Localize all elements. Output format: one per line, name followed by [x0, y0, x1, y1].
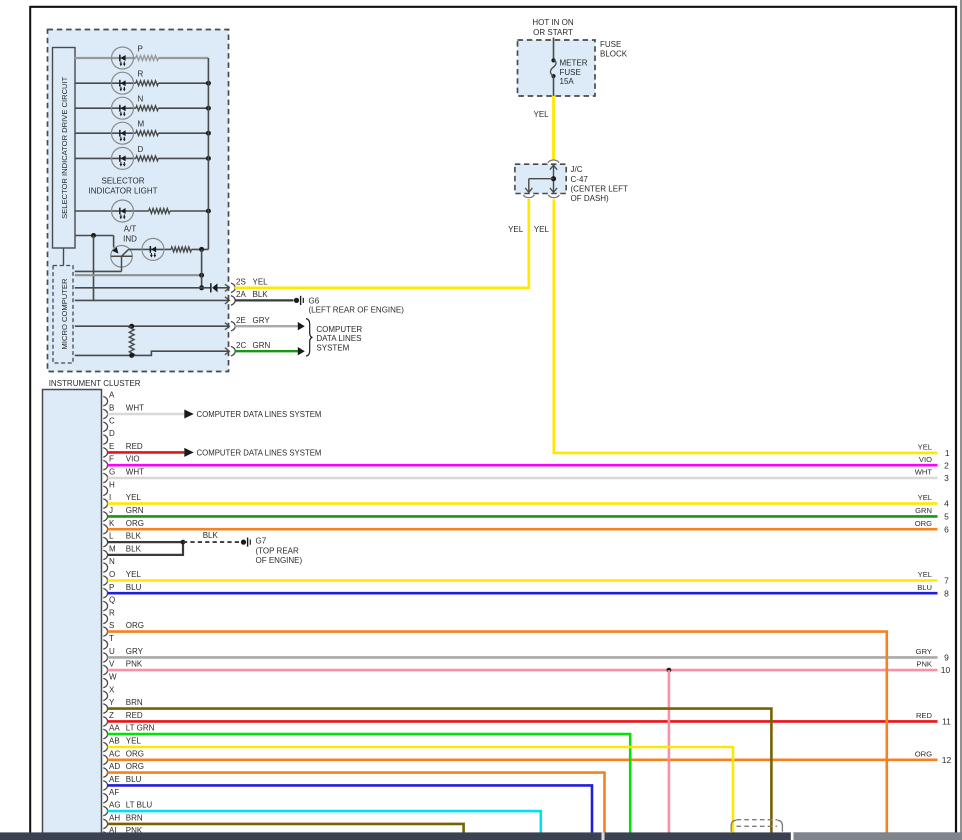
- wire row P: [75, 57, 136, 59]
- wire hot feed into fuse: [553, 38, 555, 60]
- svg-text:U: U: [109, 647, 115, 656]
- svg-text:AC: AC: [109, 749, 120, 758]
- JC chevron up: [550, 165, 557, 170]
- svg-text:B: B: [109, 404, 114, 413]
- svg-text:YEL: YEL: [918, 493, 932, 502]
- JC chevron down left: [525, 188, 532, 193]
- svg-text:VIO: VIO: [126, 455, 140, 464]
- svg-text:S: S: [109, 621, 114, 630]
- wire fuse to box bottom: [553, 76, 555, 96]
- wire 2A vertical branch: [93, 236, 95, 301]
- svg-text:V: V: [109, 660, 115, 669]
- selector indicator drive circuit box U1: [53, 48, 76, 249]
- wire pin AE BLU down: [108, 785, 593, 833]
- transistor Q1 A/T IND driver: [111, 245, 133, 267]
- svg-text:D: D: [138, 145, 144, 154]
- fuse block dashed box: [518, 40, 596, 96]
- wire pin I YEL to right edge: [108, 502, 938, 505]
- LED M selector indicator: [112, 122, 134, 144]
- wire pin AG LT BLU down: [108, 811, 541, 833]
- instrument cluster internal circuit dashed box: [48, 30, 229, 372]
- wire pin O YEL to right edge: [108, 579, 938, 582]
- connector cap into JC: [548, 160, 559, 163]
- svg-text:H: H: [109, 480, 115, 489]
- wire YEL JC right branch down: [554, 199, 938, 453]
- svg-text:11: 11: [942, 717, 951, 727]
- connector pin 2C: [225, 348, 230, 355]
- svg-text:M: M: [109, 544, 116, 553]
- svg-text:RED: RED: [126, 442, 143, 451]
- LED P selector indicator: [112, 47, 134, 69]
- svg-text:G6: G6: [309, 296, 320, 305]
- svg-text:YEL: YEL: [534, 225, 550, 234]
- JC exit cup left: [523, 195, 534, 198]
- JC internal wire vertical: [553, 165, 555, 193]
- resistor R2 micro computer: [129, 326, 134, 355]
- svg-text:YEL: YEL: [508, 225, 524, 234]
- svg-text:LT BLU: LT BLU: [126, 801, 153, 810]
- svg-text:ORG: ORG: [126, 621, 144, 630]
- svg-text:AA: AA: [109, 724, 120, 733]
- arrow pin B data lines: [184, 410, 194, 419]
- svg-text:BLK: BLK: [203, 531, 219, 540]
- svg-text:AF: AF: [109, 788, 119, 797]
- svg-text:Q: Q: [109, 596, 115, 605]
- svg-text:K: K: [109, 519, 115, 528]
- svg-text:J/C: J/C: [571, 165, 583, 174]
- svg-text:P: P: [138, 45, 143, 54]
- svg-text:G7: G7: [256, 537, 267, 546]
- svg-text:ORG: ORG: [126, 519, 144, 528]
- svg-text:P: P: [109, 583, 114, 592]
- svg-text:BLU: BLU: [917, 583, 932, 592]
- junction 2C resistor bottom: [129, 353, 134, 358]
- wire 2C from micro computer: [75, 354, 132, 356]
- resistor A/T IND: [171, 247, 191, 252]
- wire 2S to connector: [218, 287, 229, 289]
- wire PNK vertical down: [668, 670, 671, 833]
- stub between drive circuit and micro computer: [63, 248, 65, 266]
- wire pin Z RED to right edge: [108, 720, 938, 723]
- wire pin E RED: [108, 451, 185, 454]
- svg-text:OF DASH): OF DASH): [571, 194, 610, 203]
- wire 2A from micro computer: [75, 299, 229, 301]
- svg-text:PNK: PNK: [916, 660, 932, 669]
- svg-text:5: 5: [944, 512, 949, 522]
- resistor row R: [136, 81, 159, 86]
- wire YEL fuse to JC: [552, 96, 555, 160]
- JC exit cup right: [548, 195, 559, 198]
- wire 2E from micro computer: [75, 325, 229, 327]
- diode D1 on 2S line: [210, 283, 212, 292]
- svg-text:3: 3: [944, 473, 949, 483]
- svg-text:12: 12: [942, 755, 952, 765]
- JC chevron down right: [550, 188, 557, 193]
- svg-text:R: R: [138, 70, 144, 79]
- junction bus row N: [206, 106, 211, 111]
- svg-text:L: L: [109, 532, 114, 541]
- svg-text:AB: AB: [109, 737, 120, 746]
- junction bus illumination: [206, 209, 211, 214]
- wire pin B WHT: [108, 413, 185, 416]
- svg-text:2C: 2C: [236, 341, 246, 350]
- svg-text:7: 7: [944, 576, 949, 586]
- junction connector JC C-47 dashed box: [515, 164, 566, 193]
- wire pin J GRN to right edge: [108, 515, 938, 518]
- resistor illumination: [149, 209, 170, 214]
- svg-text:WHT: WHT: [915, 468, 933, 477]
- svg-text:SELECTOR INDICATOR DRIVE CIRCU: SELECTOR INDICATOR DRIVE CIRCUIT: [60, 76, 69, 219]
- connector dashed oval bottom: [737, 819, 778, 821]
- svg-text:2E: 2E: [236, 316, 246, 325]
- JC internal branch left: [529, 178, 554, 180]
- LED N selector indicator: [112, 97, 134, 119]
- svg-text:AG: AG: [109, 801, 121, 810]
- junction JC node: [551, 176, 556, 181]
- wire resistor to bus: [191, 248, 208, 250]
- resistor row N: [136, 106, 159, 111]
- svg-text:MICRO COMPUTER: MICRO COMPUTER: [60, 278, 69, 349]
- svg-text:BRN: BRN: [126, 698, 143, 707]
- wire pin F VIO to right edge: [108, 464, 938, 467]
- svg-text:FUSE: FUSE: [600, 40, 621, 49]
- svg-text:8: 8: [944, 588, 949, 598]
- junction 2E resistor top: [129, 324, 134, 329]
- wire YEL JC left branch down: [527, 199, 530, 288]
- svg-text:BRN: BRN: [126, 813, 143, 822]
- connector pin 2E: [225, 323, 230, 330]
- svg-text:15A: 15A: [560, 77, 575, 86]
- svg-text:A/T: A/T: [124, 224, 137, 233]
- wire pin U GRY to right edge: [108, 656, 938, 659]
- resistor row D: [136, 156, 159, 161]
- wire 2A BLK black: [235, 299, 294, 301]
- wire pin L BLK: [108, 541, 184, 543]
- wire pin AH BRN down: [108, 824, 464, 833]
- svg-text:COMPUTER DATA LINES SYSTEM: COMPUTER DATA LINES SYSTEM: [197, 410, 322, 419]
- instrument cluster connector box: [43, 390, 102, 840]
- svg-text:INDICATOR LIGHT: INDICATOR LIGHT: [88, 187, 157, 196]
- wire row N: [75, 107, 136, 109]
- svg-text:E: E: [109, 442, 114, 451]
- svg-text:LT GRN: LT GRN: [126, 724, 155, 733]
- junction A/T IND node: [199, 247, 204, 252]
- svg-text:GRN: GRN: [253, 341, 271, 350]
- svg-text:4: 4: [944, 499, 949, 509]
- connector pin 2A: [225, 297, 230, 304]
- ground G6: [294, 298, 299, 303]
- svg-text:YEL: YEL: [126, 737, 142, 746]
- resistor row M: [136, 131, 159, 136]
- svg-text:G: G: [109, 468, 115, 477]
- fuse F1 METER FUSE 15A: [551, 58, 555, 62]
- wire row D: [75, 157, 136, 159]
- junction 2S node: [199, 285, 204, 290]
- svg-text:Y: Y: [109, 698, 115, 707]
- wire emitter return: [75, 270, 122, 272]
- svg-text:YEL: YEL: [918, 570, 932, 579]
- svg-text:BLK: BLK: [126, 544, 142, 553]
- svg-text:C: C: [109, 416, 115, 425]
- svg-text:1: 1: [945, 448, 950, 458]
- svg-text:(TOP REAR: (TOP REAR: [256, 546, 299, 555]
- wire pin AB YEL down: [108, 747, 734, 833]
- svg-text:2: 2: [944, 460, 949, 470]
- wire collector to LED: [129, 248, 171, 250]
- svg-text:ORG: ORG: [915, 749, 932, 758]
- junction base wire: [91, 233, 96, 238]
- svg-text:T: T: [109, 634, 114, 643]
- scrollbar bottom: [0, 832, 962, 840]
- wire row illumination: [75, 210, 149, 212]
- svg-text:W: W: [109, 673, 117, 682]
- arrow pin E data lines: [184, 448, 194, 457]
- wire gray micro computer row: [75, 274, 202, 276]
- wire pin S ORG down right side: [108, 632, 887, 833]
- micro computer box U2: [53, 266, 73, 364]
- wire 2S from micro computer: [75, 287, 211, 289]
- svg-text:O: O: [109, 570, 115, 579]
- wire pin V PNK to right edge: [108, 669, 938, 672]
- wire pin Y BRN down: [108, 709, 772, 833]
- LED A/T IND: [142, 238, 164, 260]
- wire BLK dashed to G7: [183, 541, 241, 543]
- svg-text:BLOCK: BLOCK: [600, 49, 628, 58]
- wire 2C GRN green: [235, 350, 299, 352]
- svg-text:COMPUTER DATA LINES SYSTEM: COMPUTER DATA LINES SYSTEM: [197, 448, 322, 457]
- LED illumination: [112, 200, 134, 222]
- svg-text:HOT IN ON: HOT IN ON: [532, 18, 573, 27]
- wire pin M BLK: [108, 542, 184, 555]
- svg-text:ORG: ORG: [126, 762, 144, 771]
- svg-text:R: R: [109, 608, 115, 617]
- svg-text:WHT: WHT: [126, 468, 144, 477]
- junction bus row R: [206, 81, 211, 86]
- svg-text:N: N: [138, 95, 144, 104]
- resistor row P: [136, 56, 159, 61]
- wire pin AC ORG to right edge: [108, 758, 938, 761]
- svg-text:9: 9: [944, 653, 949, 663]
- svg-text:(LEFT REAR OF ENGINE): (LEFT REAR OF ENGINE): [309, 306, 405, 315]
- svg-text:2A: 2A: [236, 290, 246, 299]
- brace computer data lines: [306, 319, 312, 357]
- svg-text:BLU: BLU: [126, 583, 142, 592]
- svg-text:A: A: [109, 391, 115, 400]
- svg-text:GRY: GRY: [253, 316, 271, 325]
- page border frame: [30, 6, 957, 8]
- svg-text:RED: RED: [916, 711, 933, 720]
- wire 2E GRY gray: [235, 325, 299, 327]
- svg-text:M: M: [138, 120, 145, 129]
- arrow 2C to data lines: [298, 347, 305, 355]
- svg-text:WHT: WHT: [126, 404, 144, 413]
- svg-text:BLU: BLU: [126, 775, 142, 784]
- wire base from drive circuit: [75, 235, 114, 237]
- wire 2S YEL yellow: [235, 199, 529, 288]
- svg-text:C-47: C-47: [571, 175, 589, 184]
- wire pin AD ORG down: [108, 773, 605, 833]
- svg-text:AE: AE: [109, 775, 120, 784]
- wire row R: [75, 82, 136, 84]
- svg-text:AH: AH: [109, 813, 120, 822]
- svg-text:COMPUTER: COMPUTER: [316, 325, 362, 334]
- svg-text:AD: AD: [109, 762, 120, 771]
- junction bus row D: [206, 156, 211, 161]
- svg-text:DATA LINES: DATA LINES: [316, 334, 361, 343]
- junction bus row M: [206, 131, 211, 136]
- wire row M: [75, 132, 136, 134]
- svg-text:RED: RED: [126, 711, 143, 720]
- svg-text:PNK: PNK: [126, 660, 143, 669]
- svg-text:OR START: OR START: [533, 28, 573, 37]
- svg-text:FUSE: FUSE: [560, 68, 581, 77]
- LED R selector indicator: [112, 72, 134, 94]
- svg-text:YEL: YEL: [918, 442, 932, 451]
- svg-text:GRY: GRY: [126, 647, 144, 656]
- svg-text:X: X: [109, 685, 115, 694]
- svg-text:J: J: [109, 506, 113, 515]
- junction gray row: [199, 273, 204, 278]
- svg-text:10: 10: [941, 665, 951, 675]
- svg-text:YEL: YEL: [534, 110, 550, 119]
- ground G7: [241, 540, 246, 545]
- svg-text:GRN: GRN: [126, 506, 144, 515]
- wire pin AA LT GRN down: [108, 734, 631, 833]
- svg-text:INSTRUMENT CLUSTER: INSTRUMENT CLUSTER: [49, 379, 141, 388]
- junction V PNK node: [667, 668, 672, 673]
- junction L M BLK: [181, 540, 186, 545]
- wire pin P BLU to right edge: [108, 592, 938, 595]
- svg-text:Z: Z: [109, 711, 114, 720]
- wire pin AI PNK: [108, 835, 401, 838]
- connector pin 2S: [225, 284, 230, 291]
- svg-text:ORG: ORG: [915, 519, 932, 528]
- svg-text:N: N: [109, 557, 115, 566]
- svg-text:YEL: YEL: [126, 493, 142, 502]
- svg-text:OF ENGINE): OF ENGINE): [256, 556, 303, 565]
- wire pin K ORG to right edge: [108, 528, 938, 531]
- wire pin G WHT to right edge: [108, 477, 938, 480]
- svg-text:IND: IND: [123, 234, 137, 243]
- svg-text:F: F: [109, 455, 114, 464]
- svg-text:SELECTOR: SELECTOR: [102, 177, 145, 186]
- svg-text:I: I: [109, 493, 111, 502]
- svg-text:BLK: BLK: [126, 532, 142, 541]
- bus wire right vertical: [207, 58, 209, 249]
- wire node vertical to 2S: [201, 249, 203, 287]
- svg-text:BLK: BLK: [253, 290, 269, 299]
- svg-text:VIO: VIO: [919, 455, 932, 464]
- svg-text:YEL: YEL: [253, 277, 269, 286]
- svg-text:SYSTEM: SYSTEM: [316, 343, 349, 352]
- svg-text:GRN: GRN: [915, 506, 932, 515]
- LED D selector indicator: [112, 147, 134, 169]
- svg-text:2S: 2S: [236, 277, 246, 286]
- svg-text:D: D: [109, 429, 115, 438]
- svg-text:YEL: YEL: [126, 570, 142, 579]
- svg-text:METER: METER: [560, 58, 588, 67]
- svg-text:ORG: ORG: [126, 749, 144, 758]
- svg-text:6: 6: [944, 524, 949, 534]
- svg-text:GRY: GRY: [916, 647, 932, 656]
- svg-text:(CENTER LEFT: (CENTER LEFT: [571, 184, 628, 193]
- arrow 2E to data lines: [298, 322, 305, 330]
